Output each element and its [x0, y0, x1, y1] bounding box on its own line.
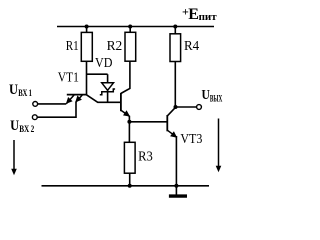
junction node: R2 top	[128, 25, 132, 29]
wire: R3 bottom lead	[129, 173, 131, 186]
svg-text:E: E	[188, 6, 199, 23]
terminal: output	[197, 105, 202, 110]
svg-text:ВХ 2: ВХ 2	[19, 124, 34, 134]
svg-text:U: U	[9, 82, 18, 98]
transistor VT1 (multi-emitter)	[66, 95, 87, 104]
svg-text:R1: R1	[66, 38, 79, 53]
terminal: input 2	[32, 115, 37, 120]
terminal: input 1	[33, 102, 38, 107]
wire: R4 bottom lead to VT3 collector	[167, 62, 175, 116]
svg-text:пит: пит	[199, 11, 218, 23]
transistor VT3	[167, 115, 177, 138]
svg-text:ВЫХ: ВЫХ	[210, 94, 223, 104]
junction node: R3 to ground rail	[128, 184, 132, 188]
svg-text:VD: VD	[95, 55, 113, 70]
svg-text:ВХ 1: ВХ 1	[18, 88, 32, 98]
diode VD (Schottky)	[100, 83, 115, 95]
junction node: R4 top	[173, 25, 177, 29]
junction node B (VT2 emitter / R3 / VT3 base)	[127, 120, 131, 124]
wire: bottom common rail	[42, 185, 210, 187]
wire: node B to VT3 base	[129, 121, 167, 123]
arrow: Uвх direction (left)	[11, 140, 17, 175]
resistor R3	[124, 142, 153, 173]
wire: VT1 collector to VT2 base	[86, 95, 121, 103]
wire: R1 top lead	[86, 27, 88, 33]
wire: node B down to R3	[128, 122, 130, 143]
svg-text:U: U	[202, 88, 210, 103]
svg-text:U: U	[10, 118, 19, 134]
resistor R1	[66, 32, 93, 61]
wire: R4 top lead	[174, 27, 176, 34]
wire: R1 bottom lead to VT1 base	[86, 61, 88, 94]
ground symbol	[169, 194, 187, 197]
wire: node A horizontal to diode anode	[87, 73, 108, 75]
wire: output wire to terminal	[175, 106, 196, 108]
junction node: output tap	[174, 105, 178, 109]
arrow: Uвых direction (right)	[216, 119, 222, 173]
wire: VT2 emitter lead to node B	[128, 116, 130, 122]
svg-text:VT3: VT3	[180, 132, 202, 147]
wire: diode cathode lead	[107, 91, 109, 103]
wire: VT2 collector lead to R2	[121, 61, 130, 93]
junction node: R1 top	[85, 25, 89, 29]
svg-text:R2: R2	[107, 38, 123, 53]
svg-text:VT1: VT1	[58, 69, 79, 84]
wire: diode anode lead	[107, 74, 109, 83]
wire: VT3 emitter to ground rail	[175, 136, 177, 195]
svg-text:R4: R4	[184, 38, 199, 53]
wire: R2 top lead	[129, 27, 131, 33]
transistor VT2	[121, 93, 130, 117]
resistor R2	[107, 32, 136, 61]
svg-text:R3: R3	[138, 148, 153, 163]
wire: top power rail	[57, 26, 214, 28]
wire: input 2 from terminal	[37, 102, 76, 118]
wire: input 1 from terminal	[38, 103, 66, 105]
resistor R4	[170, 34, 199, 62]
junction node: VT3 emitter to ground rail	[174, 184, 178, 188]
